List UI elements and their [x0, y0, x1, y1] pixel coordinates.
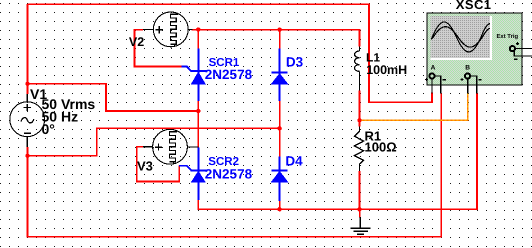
- scope ext trig terminal: [510, 42, 532, 59]
- node junction dot 4: [277, 27, 281, 31]
- pulse source V3: [143, 129, 198, 164]
- wire V1 top stub: [27, 84, 29, 94]
- wire scope B+ to L1/R1 node (orange): [360, 94, 468, 121]
- thyristor SCR2 2N2578: [179, 147, 206, 200]
- node junction dot 6: [277, 126, 281, 130]
- wire V1 bottom stub: [27, 147, 29, 156]
- wire D3 anode to D4 column: [279, 101, 281, 157]
- wire SCR1 cathode stub: [197, 30, 199, 49]
- node junction dot 5: [196, 109, 200, 113]
- node junction dot 3: [196, 27, 200, 31]
- svg-text:2N2578: 2N2578: [205, 167, 253, 182]
- node junction dot 7: [357, 118, 361, 122]
- thyristor SCR1 2N2578: [181, 49, 206, 102]
- wire ground stem red part: [359, 209, 361, 217]
- scope terminal B with stubs: [461, 73, 482, 93]
- wire SCR1 anode to SCR2 cathode column: [197, 101, 199, 147]
- svg-text:V2: V2: [129, 35, 144, 49]
- diode D3: [271, 49, 289, 102]
- node junction dot 1: [25, 82, 29, 86]
- wire V1 bottom to scope A- (bottom rail): [28, 94, 442, 237]
- wire D3 cathode stub: [279, 30, 281, 49]
- pulse source V2: [143, 12, 193, 47]
- node junction dot 2: [25, 154, 29, 158]
- wire V3 left lead loop to SCR2 gate: [137, 147, 180, 182]
- svg-text:2N2578: 2N2578: [205, 67, 253, 82]
- wire L1 bottom to R1 top: [359, 90, 361, 126]
- diode D4: [271, 157, 289, 201]
- svg-text:100Ω: 100Ω: [365, 140, 397, 155]
- inductor L1 100mH: [355, 47, 360, 91]
- wire V2 left lead loop to SCR1 gate: [135, 30, 182, 67]
- node junction dot 8: [277, 207, 281, 211]
- resistor R1 100ohm: [354, 126, 363, 171]
- svg-text:D3: D3: [286, 55, 304, 70]
- svg-text:V3: V3: [137, 159, 153, 174]
- wire V1 bottom junction to D4 rail: [28, 128, 280, 156]
- oscilloscope XSC1: [427, 13, 522, 85]
- wire V1 top junction to SCR1 anode (mid rail): [28, 84, 199, 111]
- wire D4 anode stub: [279, 201, 281, 209]
- scope terminal A with stubs: [425, 73, 446, 93]
- wire top rail from V1 top to scope A+ riser: [28, 4, 433, 102]
- node junction dot 9: [357, 207, 361, 211]
- wire SCR2 anode to bottom rail to scope B-: [198, 94, 477, 210]
- svg-text:D4: D4: [285, 154, 303, 169]
- svg-text:A: A: [431, 65, 436, 72]
- svg-text:Ext Trig: Ext Trig: [497, 33, 519, 40]
- svg-text:100mH: 100mH: [366, 63, 407, 77]
- wire scope A+ red stub: [431, 94, 433, 103]
- AC source V1: [10, 94, 45, 147]
- svg-text:0°: 0°: [42, 121, 55, 137]
- wire V2 right junction to L1 top: [192, 30, 360, 47]
- wire left rail V1 top: [27, 4, 29, 84]
- svg-text:B: B: [465, 65, 470, 72]
- svg-text:XSC1: XSC1: [456, 0, 492, 12]
- ground: [351, 217, 371, 234]
- wire R1 bottom to ground junction: [359, 171, 361, 209]
